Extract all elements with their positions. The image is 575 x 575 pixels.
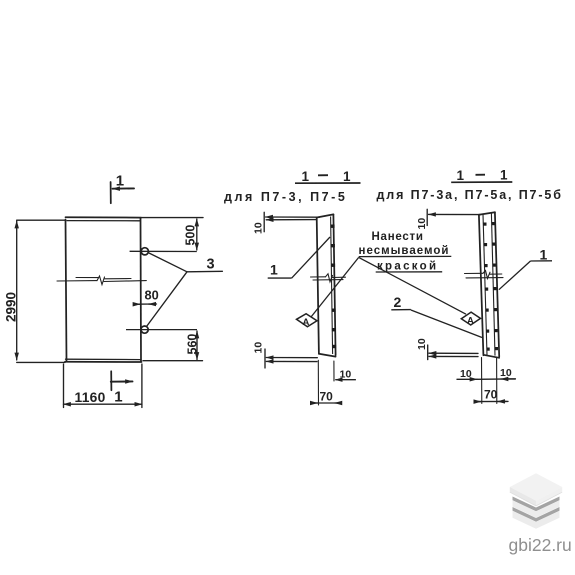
section mark 1 top [111, 182, 134, 203]
middle plank anchor ticks [331, 225, 337, 349]
dimension 70 (right) [476, 400, 508, 402]
svg-text:Нанести: Нанести [372, 231, 424, 243]
svg-text:500: 500 [184, 225, 198, 246]
svg-text:10: 10 [416, 338, 428, 350]
lifting loop top [141, 248, 148, 255]
dimension 10 bottom-left (middle) [265, 349, 317, 368]
svg-text:1: 1 [270, 262, 278, 278]
loop top axis line [130, 250, 197, 252]
middle plank break line [311, 274, 346, 282]
top slab top face [510, 473, 562, 500]
svg-text:10: 10 [416, 218, 428, 230]
section mark 1 bottom [111, 371, 133, 390]
dimension 10 bottom-left (right) [428, 345, 478, 360]
marking leader from text to middle diamond [311, 257, 359, 317]
svg-text:краской: краской [377, 261, 438, 273]
right plank anchor dots two rows [483, 222, 498, 351]
bottom slab dark rim [513, 507, 560, 522]
loop bottom axis line [126, 329, 197, 331]
svg-text:А: А [303, 317, 310, 328]
svg-text:gbi22.ru: gbi22.ru [509, 535, 572, 555]
middle plank outline [317, 214, 336, 356]
svg-text:1: 1 [116, 173, 124, 190]
lifting loop bottom [141, 326, 148, 333]
top slab bottom soft edge [510, 492, 562, 506]
svg-text:1: 1 [500, 168, 508, 183]
leader to 3 [147, 253, 223, 327]
dimension 10 top (middle) [264, 212, 319, 231]
bottom extension lines (middle) [318, 360, 334, 405]
leader 1 to plank (right) [499, 261, 531, 290]
svg-text:1: 1 [302, 169, 310, 184]
svg-text:1: 1 [114, 389, 122, 406]
middle slab light side [513, 500, 560, 517]
top slab left side [510, 487, 536, 506]
middle slab dark rim [513, 497, 560, 512]
svg-text:1160: 1160 [75, 390, 106, 405]
leader 1 to plank (middle) [292, 237, 330, 278]
top slab right side [536, 487, 562, 506]
dimension 10 top (right) [427, 209, 480, 225]
header underline (middle) [295, 182, 361, 184]
panel bottom edge (double line) [66, 358, 142, 360]
header underline (right) [451, 181, 512, 183]
dimension 560 [143, 331, 203, 361]
right plank outline [479, 212, 499, 358]
panel top edge (double line) [66, 216, 142, 218]
svg-text:3: 3 [207, 257, 215, 273]
dimension 1160 bottom [64, 364, 142, 408]
svg-text:А: А [467, 316, 474, 327]
dimension 2990 left [17, 220, 65, 362]
svg-text:1: 1 [343, 169, 351, 184]
dimension 10 bottom-right (middle) [335, 379, 356, 381]
marking diamond (middle) with letter А [297, 314, 318, 327]
dimension 10-10 bottom (right) [457, 378, 515, 380]
svg-text:для П7-3а, П7-5а, П7-5б: для П7-3а, П7-5а, П7-5б [377, 188, 563, 202]
right plank break line [465, 271, 504, 279]
svg-text:1: 1 [540, 247, 548, 263]
svg-text:560: 560 [185, 334, 199, 355]
svg-text:10: 10 [340, 369, 352, 381]
svg-text:10: 10 [460, 368, 472, 380]
svg-text:для П7-3, П7-5: для П7-3, П7-5 [224, 190, 347, 204]
mid-panel break line with zigzag [57, 276, 146, 285]
panel outline left edge [66, 220, 67, 362]
leader 2 to right plank [411, 310, 482, 338]
svg-text:10: 10 [253, 222, 265, 234]
marking diamond (right) with letter А [461, 312, 480, 325]
logo slab stack [510, 473, 562, 528]
svg-text:70: 70 [484, 388, 498, 402]
marking leader from text to right diamond [359, 257, 466, 314]
dimension 70 (middle) [311, 402, 340, 404]
bottom slab light side [513, 511, 560, 529]
svg-text:1: 1 [457, 168, 465, 183]
svg-text:10: 10 [500, 367, 512, 379]
middle plank inner line [331, 217, 333, 355]
dimension 500 [141, 218, 203, 250]
svg-text:10: 10 [253, 342, 265, 354]
bottom extension lines (right) [482, 358, 497, 404]
svg-text:несмываемой: несмываемой [359, 245, 450, 257]
svg-text:2990: 2990 [4, 292, 19, 322]
svg-text:2: 2 [394, 294, 402, 310]
panel outline right edge [140, 218, 143, 362]
right plank inner lines [483, 214, 487, 355]
svg-text:80: 80 [145, 288, 159, 303]
svg-text:70: 70 [320, 390, 334, 404]
